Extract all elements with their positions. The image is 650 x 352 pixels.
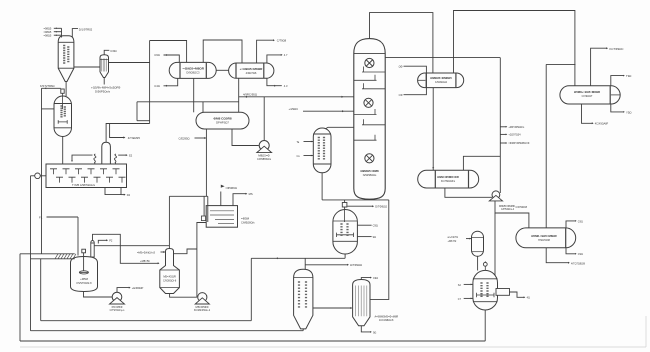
wire left header to V2 side xyxy=(42,108,55,110)
wire V5 bottoms line xyxy=(344,254,346,258)
tank T2 vent to MS xyxy=(233,194,247,206)
wire T2 drain to pump P3 xyxy=(197,223,206,298)
svg-text:+2Ω97Ω34: +2Ω97Ω34 xyxy=(508,134,521,137)
wire C1 outlet to E1 riser xyxy=(109,62,150,64)
svg-text:4/9RC/95Ω: 4/9RC/95Ω xyxy=(243,92,257,96)
svg-text:T9Ω: T9Ω xyxy=(626,74,631,78)
E6 right top stub xyxy=(566,221,576,228)
svg-text:=98Ω5: =98Ω5 xyxy=(44,33,52,37)
svg-text:=Φ5M: =Φ5M xyxy=(241,216,250,220)
wire C2 bottoms header xyxy=(322,199,389,201)
svg-text:4/TΩ7Ω9ΩΦ: 4/TΩ7Ω9ΩΦ xyxy=(571,262,585,265)
column C3 xyxy=(294,269,313,329)
svg-text:MS: MS xyxy=(249,192,253,196)
svg-text:T=M5 A/987ΘΩs/s: T=M5 A/987ΘΩs/s xyxy=(72,183,96,187)
svg-text:Ω9M=Φ5M8=ΦR: Ω9M=Φ5M8=ΦR xyxy=(437,175,458,179)
tank T2 flag vent with label xyxy=(220,192,222,206)
wire V4 bottom to header xyxy=(321,173,323,200)
reactor V7 xyxy=(473,270,498,310)
wire to column C2 with label 4/9RC/95 xyxy=(239,96,354,98)
wire to V3 side inlet with label xyxy=(120,246,158,264)
stirred tank T1 xyxy=(71,257,98,292)
E7 vent to label KCT xyxy=(591,48,608,86)
svg-text:C/P/9R2/8: C/P/9R2/8 xyxy=(516,206,528,209)
svg-text:3C/M2/45Ωu-2: 3C/M2/45Ωu-2 xyxy=(194,309,211,312)
svg-text:KCTΦ9ΩC: KCTΦ9ΩC xyxy=(610,47,624,51)
E7 stub Y5 xyxy=(611,104,624,112)
wire header down to C4 xyxy=(370,200,389,300)
svg-text:Ω5M8+=9Ω5=M8ΩR: Ω5M8+=9Ω5=M8ΩR xyxy=(574,90,600,94)
exchanger E4 xyxy=(418,73,464,88)
wire E5 to vapor downcomer xyxy=(463,156,500,170)
furnace PSV right with label S2 xyxy=(114,162,116,164)
C4 top vent label xyxy=(361,278,371,280)
E2 right top stub label 4.7 xyxy=(267,55,282,63)
svg-text:C/T97ΩΩ/μ-s: C/T97ΩΩ/μ-s xyxy=(110,309,126,312)
C1 top outlet label C/9 xyxy=(104,50,109,55)
svg-text:C9Ω: C9Ω xyxy=(578,220,583,223)
svg-text:N/9258ΩΩs: N/9258ΩΩs xyxy=(363,173,377,177)
svg-text:FL: FL xyxy=(39,215,43,219)
P4 discharge to E6 xyxy=(495,201,529,228)
wire V7 bottom drain xyxy=(484,310,486,341)
T1 standpipe xyxy=(91,243,94,257)
standpipe branch label xyxy=(98,240,107,243)
svg-text:H/9Ω7Ω98: H/9Ω7Ω98 xyxy=(538,239,550,242)
wire E3 bottom to tank T2 xyxy=(205,129,207,196)
wire E3 to pump P1 xyxy=(232,129,259,146)
svg-text:+E/Φ9ΩP: +E/Φ9ΩP xyxy=(132,286,144,290)
svg-text:=98Ω5: =98Ω5 xyxy=(44,26,52,30)
wire E4 to E7 top loop xyxy=(454,11,575,86)
reformer tube arch xyxy=(102,142,111,164)
V1 top vent line and label D/1/9TR02 xyxy=(72,29,78,37)
svg-text:Ω5M8-=9Ω5=M8ΩR: Ω5M8-=9Ω5=M8ΩR xyxy=(531,234,556,238)
svg-text:3C/H9ΩΩ3/s: 3C/H9ΩΩ3/s xyxy=(441,180,456,183)
svg-text:Ω9MΩ5=ΦM8: Ω9MΩ5=ΦM8 xyxy=(360,169,379,173)
C4 bottom outlet label xyxy=(361,326,371,332)
svg-text:M5=X5ΩR: M5=X5ΩR xyxy=(163,275,176,279)
svg-text:a/+X2/H1: a/+X2/H1 xyxy=(448,236,459,239)
wire left vertical header xyxy=(41,88,43,254)
wire E5 bottom to pump P4 xyxy=(445,188,492,197)
wire E1 inlet loop xyxy=(150,41,187,63)
svg-text:4C/X9ΩA8F: 4C/X9ΩA8F xyxy=(595,123,609,126)
pump P4 with label xyxy=(492,191,500,199)
V5 top branch label xyxy=(347,205,373,207)
svg-text:4/9Ω7Ω6: 4/9Ω7Ω6 xyxy=(246,71,257,75)
wire E1 bottom header xyxy=(137,101,239,103)
svg-text:C9Ω: C9Ω xyxy=(578,253,583,256)
svg-text:C/X9ΩΩT: C/X9ΩΩT xyxy=(582,95,593,98)
svg-text:C9Ω: C9Ω xyxy=(154,53,159,57)
svg-text:9Ω: 9Ω xyxy=(373,235,376,239)
E2 vent to label C/T9 xyxy=(257,40,274,63)
svg-text:+4/9ΩC: +4/9ΩC xyxy=(289,107,299,111)
pump P1 with label xyxy=(259,141,269,151)
wire feed to C2 with label xyxy=(303,110,354,112)
svg-text:+MP=M5ΩΩ/s: +MP=M5ΩΩ/s xyxy=(508,126,525,129)
wire tank header down to V3 neck xyxy=(168,196,170,248)
C2 spray nozzle 3 xyxy=(365,154,374,163)
wire V2 top to left header with label xyxy=(42,87,61,89)
E2 right bottom stub label 4.3 xyxy=(267,78,282,86)
C1 dipleg and equipment label xyxy=(103,78,105,85)
pump P2 with label xyxy=(112,292,122,302)
svg-text:C4Ω: C4Ω xyxy=(154,84,159,88)
vessel V5 xyxy=(333,210,358,255)
V5 right stub 9 xyxy=(357,236,371,238)
P2 discharge with label xyxy=(117,288,130,293)
E7 bottom outlet label xyxy=(582,104,593,123)
vessel V1 first-stage reactor xyxy=(58,36,74,82)
svg-text:=Φ5M9Ω: =Φ5M9Ω xyxy=(225,186,236,190)
wire C2 top to E4 xyxy=(370,13,433,73)
svg-text:P2: P2 xyxy=(109,239,113,243)
furnace bottom recycle loop xyxy=(105,188,121,195)
scrubber V3 xyxy=(160,249,180,294)
C2 spray nozzle 1 xyxy=(365,58,374,67)
svg-text:D/9Ω9ΩC3: D/9Ω9ΩC3 xyxy=(186,71,200,75)
svg-text:C/E295Ω: C/E295Ω xyxy=(179,136,190,140)
wire recycle left loop xyxy=(250,258,252,320)
svg-text:D/TΦ9ΩΩ: D/TΦ9ΩΩ xyxy=(375,205,387,209)
svg-text:C9Ω: C9Ω xyxy=(373,224,378,228)
svg-text:C/9Ω: C/9Ω xyxy=(110,49,116,53)
wire E1 to E2 top loop xyxy=(203,40,242,63)
svg-text:4Ω: 4Ω xyxy=(527,297,530,300)
V1 feed lines with labels xyxy=(54,27,62,29)
column C2 waste heat boiler xyxy=(354,39,385,200)
wire T1 bottom to pump P2 xyxy=(84,292,113,298)
svg-text:-=Ω9Ω5=M8ΩR: -=Ω9Ω5=M8ΩR xyxy=(182,67,205,71)
wire V2 bottom to furnace xyxy=(62,137,64,165)
E6 drain to label xyxy=(546,248,569,263)
separator C4 with label xyxy=(353,280,370,326)
svg-text:+M5M: +M5M xyxy=(80,277,89,281)
V7 top valve and dip tube xyxy=(484,261,486,262)
exchanger V4 xyxy=(313,128,331,173)
svg-text:CΦ: CΦ xyxy=(399,93,403,97)
svg-text:Ω9MΩ5=ΦM8Ω5: Ω9MΩ5=ΦM8Ω5 xyxy=(430,76,452,80)
C2 internal trays xyxy=(362,71,385,73)
E6 right bottom stub xyxy=(566,248,576,254)
svg-text:C9Ω: C9Ω xyxy=(373,277,378,280)
svg-text:D2: D2 xyxy=(127,193,131,197)
exchanger E5 xyxy=(418,170,479,188)
exchanger E6 xyxy=(516,228,576,248)
svg-text:=M5+Φ/t/k2/m3: =M5+Φ/t/k2/m3 xyxy=(137,251,155,255)
wire branch through E6 xyxy=(546,63,575,65)
branch label 4/T/EM25 xyxy=(110,124,125,138)
wire E2 bottom to E3 xyxy=(238,78,240,112)
wire drop to C3 xyxy=(304,258,306,269)
valve on V5 feed xyxy=(344,200,346,203)
V5 right stub C9 xyxy=(357,224,371,226)
wire P1 discharge riser xyxy=(263,97,265,141)
wire E4 to E5 xyxy=(432,88,434,171)
wire T1 area to V3 neck xyxy=(94,245,169,247)
svg-text:4/T/EM25: 4/T/EM25 xyxy=(128,136,141,140)
svg-text:C/T9Ω8: C/T9Ω8 xyxy=(277,39,287,43)
wire V1 cone to V2 xyxy=(65,82,67,97)
C2 spray nozzle 2 xyxy=(364,98,373,107)
svg-text:ΦM8 CΩ5R8: ΦM8 CΩ5R8 xyxy=(213,117,231,121)
svg-text:4.7: 4.7 xyxy=(284,53,288,57)
wire V4 top to C2 xyxy=(326,127,354,129)
wire V6 bottom to V7 xyxy=(477,256,479,270)
wire V3 bottom to pump P3 xyxy=(170,294,197,298)
svg-text:+M8 H2: +M8 H2 xyxy=(448,240,457,243)
cyclone separator C1 xyxy=(100,55,109,78)
vapor line branch labels xyxy=(500,126,506,128)
svg-text:K/ST2TR6Ω: K/ST2TR6Ω xyxy=(40,84,55,88)
wire reformer outlet riser to E1 xyxy=(106,124,150,143)
svg-text:4CCΩ98ΩL/8: 4CCΩ98ΩL/8 xyxy=(379,319,394,322)
svg-text:C/P9865Ω/s: C/P9865Ω/s xyxy=(257,157,272,161)
wire long bottom recycle xyxy=(19,254,21,341)
furnace left burner circle xyxy=(35,173,41,179)
svg-text:A=9ΦM5M5=Φ+M8R: A=9ΦM5M5=Φ+M8R xyxy=(375,316,399,319)
pump P3 with label xyxy=(198,293,207,302)
svg-text:D/56P5Ωs/s: D/56P5Ωs/s xyxy=(95,89,111,93)
exchanger E1 xyxy=(169,62,216,78)
furnace PSV left xyxy=(72,155,93,160)
V7 right nozzle box with label xyxy=(496,289,510,296)
svg-text:DPHPSΩ7: DPHPSΩ7 xyxy=(216,121,229,125)
svg-text:D/1/9TR02: D/1/9TR02 xyxy=(79,27,93,31)
vessel V2 second-stage reactor xyxy=(54,96,72,137)
wire V1 to C1 xyxy=(74,66,100,68)
svg-text:Y5Ω: Y5Ω xyxy=(626,110,632,114)
svg-text:C/M5Ω8Ω/s: C/M5Ω8Ω/s xyxy=(241,221,255,225)
vessel V6 xyxy=(472,231,484,256)
wire V3 neck outlet xyxy=(174,249,197,254)
svg-text:Ω/TΦ9ΩΩ: Ω/TΦ9ΩΩ xyxy=(350,263,362,267)
wire C3 to C4 xyxy=(313,307,352,309)
exchanger E7 xyxy=(560,86,620,104)
V2 top nozzle xyxy=(61,89,64,93)
exchanger E2 xyxy=(229,63,274,78)
wire C2 vapor line to right xyxy=(385,57,500,59)
svg-text:M8Ω5=Φ: M8Ω5=Φ xyxy=(258,153,270,157)
svg-text:C/P5/9Ω/s-4: C/P5/9Ω/s-4 xyxy=(501,208,515,211)
svg-text:S2: S2 xyxy=(129,153,133,157)
svg-text:=ΦMP=M5M8Ω=Φ: =ΦMP=M5M8Ω=Φ xyxy=(508,142,529,145)
svg-text:4.3: 4.3 xyxy=(284,84,288,88)
tank T2 slop oil tank xyxy=(206,206,237,228)
wire C2 vapor down to P4 xyxy=(499,58,501,193)
svg-text:C/9Ω9ΩsΩ: C/9Ω9ΩsΩ xyxy=(435,81,447,84)
svg-text:=98Ω5: =98Ω5 xyxy=(44,30,52,34)
condenser E3 xyxy=(196,112,249,129)
wire faint bottom line xyxy=(20,346,646,348)
svg-text:K5=R5Φ: K5=R5Φ xyxy=(112,305,124,309)
svg-text:K5/ST6ΩN/-8: K5/ST6ΩN/-8 xyxy=(77,282,93,285)
C3 branch label xyxy=(305,264,348,266)
wire down to V7 xyxy=(494,213,496,289)
wire left recycle vertical xyxy=(30,176,32,331)
svg-text:C/9Ω9ΩΩ/-8: C/9Ω9ΩΩ/-8 xyxy=(163,280,177,283)
svg-text:9Ω: 9Ω xyxy=(373,331,376,334)
svg-text:+M8=5h: +M8=5h xyxy=(140,259,150,263)
E7 stub T9 xyxy=(611,76,624,86)
svg-text:M8=R5Φ9: M8=R5Φ9 xyxy=(196,305,209,309)
wire C3 bottoms to left recycle xyxy=(302,329,304,331)
wire standpipe over to V3 feed line xyxy=(93,234,121,245)
T1 hatched feed chute xyxy=(20,253,75,255)
svg-text:ΩΦ: ΩΦ xyxy=(399,64,403,68)
svg-text:+=Ω9Ω5=M8ΩR: +=Ω9Ω5=M8ΩR xyxy=(240,67,264,71)
furnace F1 xyxy=(46,164,127,188)
wire E1 E2 shell connector xyxy=(216,69,228,71)
